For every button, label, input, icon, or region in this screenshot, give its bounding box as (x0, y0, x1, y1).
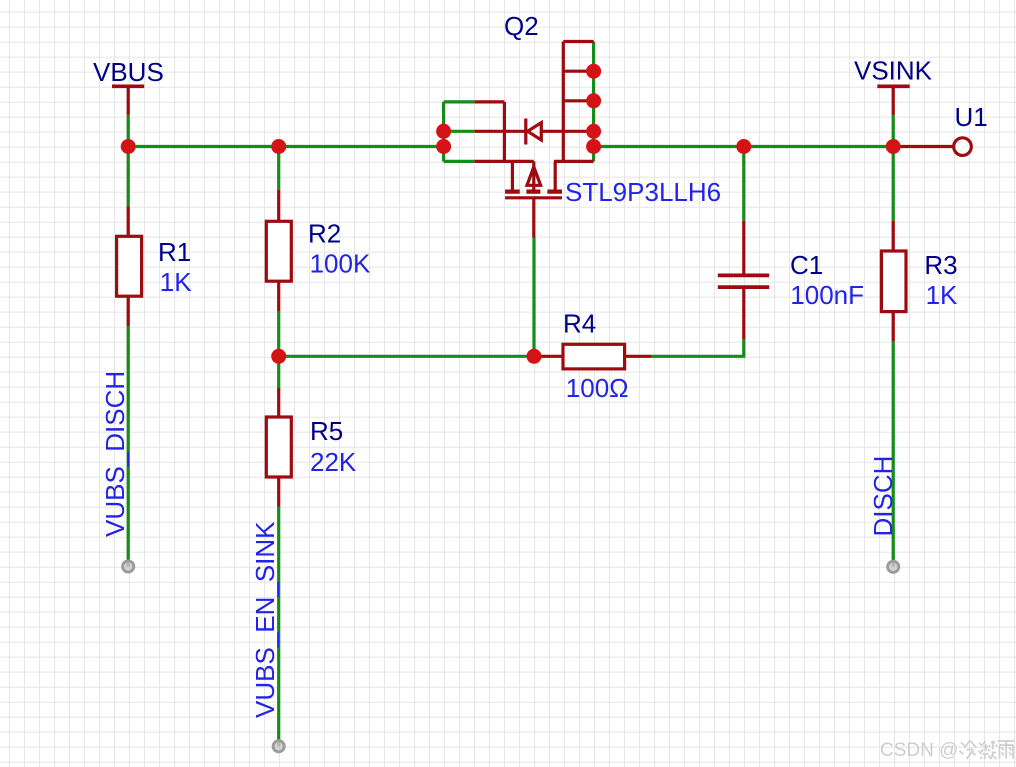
resistor R5 pins (277, 388, 280, 507)
capacitor C1 plates (718, 275, 769, 287)
wire: rail to C1 top pin (742, 147, 745, 221)
pin U1 lead (893, 145, 952, 148)
svg-text:R4: R4 (563, 309, 596, 339)
junction drain bus D5 (586, 124, 601, 139)
wire: rail to R3 top pin (892, 147, 895, 221)
svg-text:R2: R2 (308, 219, 341, 249)
wire: stub to Q2 pin S2 (444, 130, 475, 133)
junction drain bus D6 (586, 93, 601, 108)
transistor Q2 body-diode anode line (504, 130, 525, 133)
transistor Q2 body arrow head (527, 167, 541, 186)
resistor R2 pins (277, 190, 280, 311)
junction source bus S2 (436, 124, 451, 139)
wire: main rail right (Q2 drain group to VSINK node) (594, 145, 894, 148)
wire: R4 row node to R5 top pin (277, 356, 280, 388)
svg-text:R5: R5 (310, 416, 343, 446)
wire: R3 bottom pin to dangling end (892, 341, 895, 567)
transistor Q2 pin D6 (563, 99, 593, 102)
svg-text:100Ω: 100Ω (566, 373, 629, 403)
transistor Q2 channel bars (505, 190, 562, 194)
wire end below R5 (273, 741, 284, 752)
transistor Q2 gate pin (532, 198, 535, 238)
wire: VSINK power pin to rail (892, 115, 895, 147)
svg-text:VUBS_EN_SINK: VUBS_EN_SINK (250, 521, 280, 718)
wire: Q2 gate down to R4 node (532, 238, 535, 357)
junction VBUS/rail (121, 139, 136, 154)
junction source bus rail (436, 139, 451, 154)
svg-text:100nF: 100nF (790, 280, 864, 310)
svg-text:Q2: Q2 (504, 11, 539, 41)
transistor Q2 drain bar (562, 42, 565, 162)
junction drain bus rail (586, 139, 601, 154)
transistor Q2 body-diode to drain bar line (541, 130, 593, 133)
transistor Q2 source channel stub (511, 161, 514, 190)
resistor R3 pins (892, 221, 895, 341)
wire: R1 bottom pin to dangling end (127, 326, 130, 567)
capacitor C1 bottom pin (742, 289, 745, 339)
wire: stub to Q2 pin S1 (444, 100, 475, 103)
junction R2/R5/R4 row (271, 349, 286, 364)
svg-text:1K: 1K (160, 267, 192, 297)
wire: R5 bottom pin to dangling end (277, 507, 280, 747)
wire: Q2 drain bus vertical (592, 42, 595, 162)
wire end below R1 (123, 561, 134, 572)
wire: VBUS power pin to rail (127, 115, 130, 147)
transistor Q2 drain channel stub (554, 161, 557, 190)
transistor Q2 pin S1 (475, 100, 505, 103)
wire: main rail left (VBUS node to Q2 source group) (128, 145, 443, 148)
resistor R5 body (266, 417, 291, 477)
resistor R4 pins (534, 355, 652, 358)
svg-text:22K: 22K (310, 447, 357, 477)
svg-text:VSINK: VSINK (854, 56, 933, 86)
junction drain bus D7 (586, 64, 601, 79)
transistor Q2 pin D8 (563, 40, 593, 43)
svg-text:1K: 1K (926, 280, 958, 310)
resistor R1 pins (127, 206, 130, 326)
transistor Q2 gate plate (505, 196, 562, 199)
svg-text:VBUS: VBUS (93, 57, 164, 87)
capacitor C1 top pin (742, 221, 745, 274)
resistor R2 body (266, 221, 291, 281)
watermark CSDN (880, 740, 1015, 761)
power symbol VBUS bar (112, 85, 144, 89)
resistor R3 body (881, 251, 906, 312)
svg-text:VUBS_DISCH: VUBS_DISCH (100, 371, 130, 537)
transistor Q2 pin S2 (475, 130, 505, 133)
junction R2/rail (271, 139, 286, 154)
wire: R4 right pin to C1 bottom corner (652, 339, 744, 356)
svg-text:STL9P3LLH6: STL9P3LLH6 (565, 177, 721, 207)
svg-text:CSDN @: CSDN @ (880, 740, 958, 761)
svg-text:U1: U1 (955, 102, 988, 132)
wire: R2 bottom pin to R4 row node (277, 311, 280, 356)
power symbol VSINK pin (892, 86, 895, 115)
wire: rail to R1 top pin (127, 147, 130, 207)
transistor Q2 drain bottom lead (554, 160, 594, 163)
wire: Q2 source bus vertical (442, 102, 445, 161)
junction C1/rail (736, 139, 751, 154)
transistor Q2 pin S3 + source lead to arrow (475, 160, 534, 163)
svg-text:DISCH: DISCH (868, 456, 898, 537)
junction R3/rail (886, 139, 901, 154)
wire end below R3 (888, 561, 899, 572)
svg-text:R1: R1 (158, 237, 191, 267)
junction gate/R4 row (527, 349, 542, 364)
transistor Q2 body-diode cathode bar (524, 119, 527, 145)
svg-text:100K: 100K (310, 248, 371, 278)
pin U1 terminal circle (954, 138, 972, 156)
transistor Q2 source bar (503, 102, 506, 161)
resistor R1 body (117, 236, 142, 296)
wire: stub to Q2 pin S3 (444, 160, 475, 163)
transistor Q2 body-diode triangle (528, 123, 542, 140)
svg-text:C1: C1 (790, 250, 823, 280)
wire: rail to R2 top pin (277, 147, 280, 190)
transistor Q2 body arrow shaft (532, 161, 535, 190)
power symbol VSINK bar (877, 85, 909, 89)
resistor R4 body (563, 344, 625, 369)
power symbol VBUS pin (127, 86, 130, 115)
wire: R4 row horizontal (R2/R5 node to gate node) (279, 355, 534, 358)
transistor Q2 pin D7 (563, 70, 593, 73)
svg-text:R3: R3 (924, 250, 957, 280)
